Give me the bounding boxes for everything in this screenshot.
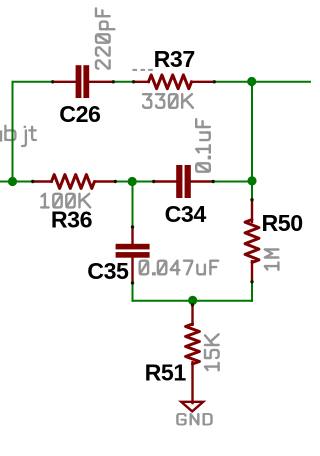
svg-text:C34: C34: [165, 201, 207, 227]
svg-text:C26: C26: [59, 101, 101, 127]
svg-text:C35: C35: [87, 258, 129, 284]
svg-text:R37: R37: [154, 46, 195, 72]
svg-text:R50: R50: [262, 210, 303, 236]
svg-text:R51: R51: [145, 359, 187, 385]
svg-text:R36: R36: [51, 207, 93, 233]
